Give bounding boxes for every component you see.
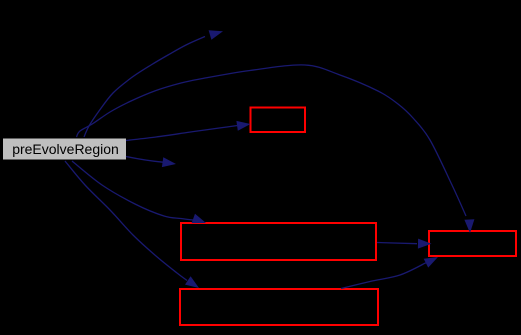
svg-text:preEvolveRegion: preEvolveRegion <box>12 141 119 157</box>
